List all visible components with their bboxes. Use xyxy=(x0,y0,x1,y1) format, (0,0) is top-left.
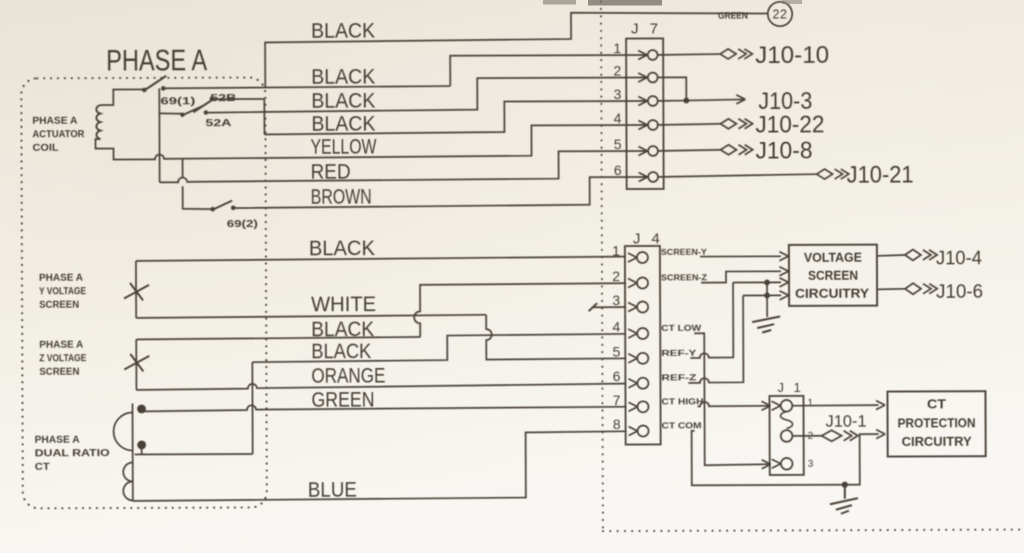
svg-text:YELLOW: YELLOW xyxy=(310,136,376,159)
svg-text:SCREEN: SCREEN xyxy=(808,268,858,283)
svg-text:69(2): 69(2) xyxy=(227,218,258,230)
svg-text:J10-4: J10-4 xyxy=(936,248,982,269)
svg-text:CT: CT xyxy=(35,461,51,473)
svg-text:BLUE: BLUE xyxy=(308,479,357,502)
svg-text:1: 1 xyxy=(807,398,813,409)
svg-text:PHASE A: PHASE A xyxy=(32,115,77,127)
svg-text:REF-Z: REF-Z xyxy=(661,372,696,382)
svg-text:5: 5 xyxy=(612,343,620,359)
svg-text:4: 4 xyxy=(614,110,622,126)
svg-text:J 1: J 1 xyxy=(777,380,803,395)
svg-text:BLACK: BLACK xyxy=(311,90,375,113)
svg-text:GREEN: GREEN xyxy=(718,11,748,22)
svg-text:69(1): 69(1) xyxy=(160,95,195,107)
svg-text:4: 4 xyxy=(612,319,620,335)
svg-text:6: 6 xyxy=(613,368,621,384)
svg-text:BLACK: BLACK xyxy=(311,66,375,89)
svg-text:SCREEN: SCREEN xyxy=(39,366,79,378)
svg-text:SCREEN-Y: SCREEN-Y xyxy=(661,247,707,257)
svg-text:1: 1 xyxy=(613,40,621,56)
svg-text:J 4: J 4 xyxy=(633,230,664,247)
svg-text:PHASE A: PHASE A xyxy=(35,434,80,446)
svg-text:3: 3 xyxy=(613,86,621,102)
svg-text:VOLTAGE: VOLTAGE xyxy=(804,250,862,265)
svg-text:Z VOLTAGE: Z VOLTAGE xyxy=(39,352,86,364)
svg-text:6: 6 xyxy=(614,162,622,178)
svg-text:BLACK: BLACK xyxy=(311,20,375,43)
svg-text:CT HIGH: CT HIGH xyxy=(661,396,703,406)
svg-text:CT: CT xyxy=(927,396,946,411)
svg-text:8: 8 xyxy=(613,416,621,432)
svg-text:BLACK: BLACK xyxy=(311,113,375,136)
svg-text:PHASE A: PHASE A xyxy=(106,44,207,77)
svg-text:52A: 52A xyxy=(205,117,232,129)
svg-text:CT COM: CT COM xyxy=(662,420,702,430)
svg-text:J10-22: J10-22 xyxy=(755,111,824,138)
svg-text:J10-6: J10-6 xyxy=(936,282,983,303)
svg-text:REF-Y: REF-Y xyxy=(661,348,696,358)
svg-text:J10-10: J10-10 xyxy=(755,42,829,69)
svg-text:GREEN: GREEN xyxy=(311,389,374,412)
svg-text:2: 2 xyxy=(612,268,620,284)
svg-text:COIL: COIL xyxy=(32,142,59,154)
svg-text:BROWN: BROWN xyxy=(311,186,372,209)
svg-text:CIRCUITRY: CIRCUITRY xyxy=(902,434,972,449)
svg-text:2: 2 xyxy=(613,63,621,79)
svg-text:5: 5 xyxy=(614,136,622,152)
svg-text:SCREEN-Z: SCREEN-Z xyxy=(661,272,707,282)
svg-text:J 7: J 7 xyxy=(631,20,662,37)
svg-text:1: 1 xyxy=(612,243,620,259)
svg-text:ACTUATOR: ACTUATOR xyxy=(32,128,84,140)
svg-text:RED: RED xyxy=(311,161,351,184)
svg-text:J10-8: J10-8 xyxy=(755,137,812,164)
svg-text:CT LOW: CT LOW xyxy=(661,323,702,333)
svg-text:PHASE A: PHASE A xyxy=(39,272,83,284)
svg-text:PHASE A: PHASE A xyxy=(39,339,83,351)
svg-text:SCREEN: SCREEN xyxy=(39,299,79,311)
svg-text:ORANGE: ORANGE xyxy=(311,364,385,387)
svg-text:3: 3 xyxy=(808,459,814,470)
svg-text:CIRCUITRY: CIRCUITRY xyxy=(795,286,869,301)
svg-text:22: 22 xyxy=(773,7,788,21)
svg-text:DUAL RATIO: DUAL RATIO xyxy=(35,447,110,459)
svg-text:BLACK: BLACK xyxy=(311,318,374,341)
svg-text:BLACK: BLACK xyxy=(311,340,371,363)
svg-text:7: 7 xyxy=(613,392,621,408)
svg-text:52B: 52B xyxy=(210,92,237,104)
svg-text:BLACK: BLACK xyxy=(309,237,375,260)
svg-text:J10-1: J10-1 xyxy=(826,412,867,431)
svg-text:J10-21: J10-21 xyxy=(847,161,914,188)
svg-text:PROTECTION: PROTECTION xyxy=(898,415,976,430)
svg-text:3: 3 xyxy=(612,292,620,308)
svg-text:Y VOLTAGE: Y VOLTAGE xyxy=(39,285,86,297)
svg-text:WHITE: WHITE xyxy=(311,293,376,316)
